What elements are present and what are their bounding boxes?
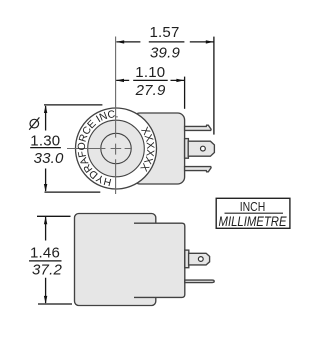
dimension line 1.57	[116, 41, 213, 43]
fraction bar 1.46	[29, 260, 62, 262]
arrow down 1.30	[44, 184, 47, 192]
spade pin base (side view)	[185, 250, 189, 268]
connector housing (side view)	[134, 223, 185, 297]
dimension line 1.30 vertical	[45, 106, 47, 191]
extension line top (1.46)	[37, 215, 71, 217]
diameter symbol	[29, 117, 39, 129]
extension line right (1.57)	[213, 37, 215, 135]
extension line bottom (1.30)	[45, 191, 101, 193]
pin 2 hole	[201, 146, 206, 151]
svg-text:INCH: INCH	[240, 199, 266, 214]
svg-text:37.2: 37.2	[32, 262, 62, 279]
arrow left 1.57	[116, 40, 124, 43]
extension line top (1.30)	[44, 104, 102, 106]
arrow left 1.10	[116, 79, 124, 82]
arrow right 1.10	[176, 79, 184, 82]
pin 2 spade blade with hole	[188, 141, 214, 156]
coil body (side view)	[75, 214, 156, 306]
horizontal centerline / diameter leader	[67, 148, 131, 150]
coil middle circle	[88, 120, 145, 177]
extension line right (1.10)	[184, 77, 186, 109]
dimension line 1.46 vertical	[45, 217, 47, 303]
pin 3 blade edge view (bottom)	[185, 167, 212, 172]
pin 1 blade edge view (top)	[185, 125, 212, 130]
svg-text:39.9: 39.9	[150, 44, 180, 61]
arrow down 1.46	[44, 296, 47, 304]
spade pin blade with hole (side view)	[189, 253, 210, 265]
svg-text:1.57: 1.57	[150, 24, 180, 41]
svg-text:1.30: 1.30	[30, 133, 60, 150]
vertical centerline	[115, 37, 117, 195]
fraction bar 1.30	[30, 147, 61, 149]
svg-text:27.9: 27.9	[135, 82, 166, 99]
arrow up 1.46	[44, 216, 47, 224]
legend box border	[216, 198, 290, 228]
pin 2 spade base	[185, 139, 189, 159]
connector body (top view)	[133, 113, 185, 184]
arrow right 1.57	[206, 40, 214, 43]
svg-text:MILLIMETRE: MILLIMETRE	[219, 213, 288, 229]
arrow up 1.30	[44, 105, 47, 113]
coil outer circle	[76, 108, 157, 189]
svg-text:1.10: 1.10	[135, 64, 165, 81]
svg-text:1.46: 1.46	[30, 245, 60, 262]
extension line bottom (1.46)	[38, 303, 72, 305]
lower pin edge view	[185, 280, 214, 283]
spade pin hole (side view)	[198, 257, 203, 262]
coil inner circle	[101, 133, 131, 163]
legend divider	[225, 212, 284, 214]
svg-text:33.0: 33.0	[34, 150, 64, 167]
dimension line 1.10	[116, 79, 184, 81]
